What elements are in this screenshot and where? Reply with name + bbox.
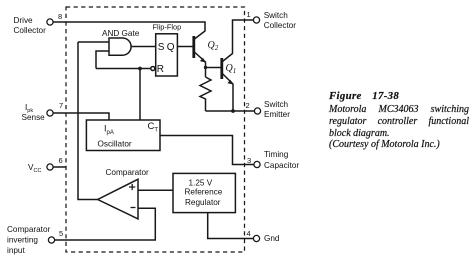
svg-text:Q: Q <box>167 42 175 53</box>
svg-text:Timing: Timing <box>264 150 289 159</box>
svg-text:1: 1 <box>247 10 251 19</box>
svg-text:Oscillator: Oscillator <box>98 140 132 149</box>
svg-text:7: 7 <box>59 101 63 110</box>
svg-text:Drive: Drive <box>14 16 34 25</box>
svg-text:VCC: VCC <box>28 163 41 174</box>
svg-text:Switch: Switch <box>264 100 289 109</box>
svg-text:AND Gate: AND Gate <box>102 29 140 38</box>
svg-text:Comparator: Comparator <box>7 225 51 234</box>
svg-text:6: 6 <box>59 156 63 165</box>
svg-text:Gnd: Gnd <box>264 234 280 243</box>
svg-text:Capacitor: Capacitor <box>264 161 299 170</box>
svg-text:Flip-Flop: Flip-Flop <box>153 23 182 32</box>
svg-text:3: 3 <box>247 156 251 165</box>
svg-text:Regulator: Regulator <box>185 198 221 207</box>
svg-text:2: 2 <box>246 101 250 110</box>
svg-text:1.25 V: 1.25 V <box>189 179 213 188</box>
svg-text:Comparator: Comparator <box>106 168 150 177</box>
svg-text:Emitter: Emitter <box>264 110 290 119</box>
svg-text:4: 4 <box>247 229 251 238</box>
svg-text:5: 5 <box>59 229 63 238</box>
svg-text:Switch: Switch <box>264 11 289 20</box>
svg-text:Q1: Q1 <box>226 63 237 75</box>
svg-text:S: S <box>158 42 165 53</box>
svg-text:Collector: Collector <box>14 26 47 35</box>
svg-text:input: input <box>7 246 25 255</box>
svg-text:R: R <box>157 64 164 75</box>
svg-text:Reference: Reference <box>185 188 223 197</box>
svg-text:Sense: Sense <box>22 113 46 122</box>
svg-text:Q2: Q2 <box>208 40 219 52</box>
svg-text:Collector: Collector <box>264 21 297 30</box>
svg-text:inverting: inverting <box>7 236 38 245</box>
svg-text:8: 8 <box>58 12 62 21</box>
